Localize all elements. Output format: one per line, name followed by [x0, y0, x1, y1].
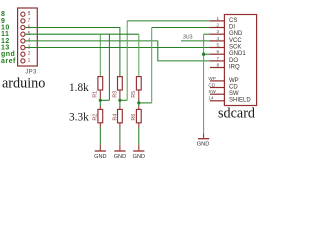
- junction dot GND1: [202, 53, 205, 56]
- svg-text:SW: SW: [208, 89, 216, 94]
- wire to sdcard CS: [127, 20, 210, 22]
- svg-text:R6: R6: [131, 114, 137, 121]
- JP3 pin circle 4: [21, 39, 25, 43]
- ground symbol lead: [138, 145, 140, 151]
- wire R1 feed vertical: [99, 34, 101, 76]
- JP3 pin circle 1: [21, 59, 25, 63]
- svg-text:2: 2: [217, 22, 220, 27]
- JP3 pin circle 2: [21, 52, 25, 56]
- wire branch 11-row down to junction A: [100, 34, 109, 100]
- svg-text:R2: R2: [93, 114, 99, 121]
- resistor R3 body: [118, 77, 123, 90]
- sdcard pin 1 stub: [210, 20, 224, 22]
- wire 3V3 to sdcard VCC: [181, 40, 210, 42]
- wire junction to R below: [138, 103, 140, 106]
- svg-text:GND: GND: [114, 154, 126, 160]
- svg-text:2: 2: [28, 51, 31, 57]
- resistor R2 lead bottom: [99, 123, 101, 127]
- resistor R3 lead bottom: [119, 90, 121, 100]
- resistor R2 body: [98, 109, 103, 122]
- svg-text:3.3k: 3.3k: [69, 111, 89, 123]
- svg-text:CD: CD: [229, 84, 238, 90]
- junction dot col R5: [137, 101, 140, 104]
- svg-text:7: 7: [217, 56, 220, 61]
- svg-text:CD: CD: [208, 82, 215, 87]
- wire junction A over to R5 top: [109, 33, 138, 35]
- svg-text:GND1: GND1: [229, 51, 246, 57]
- svg-text:8: 8: [217, 62, 220, 67]
- svg-text:aref: aref: [1, 58, 16, 65]
- svg-text:DI: DI: [229, 24, 235, 30]
- sdcard pin CD stub: [210, 87, 224, 89]
- sdcard body: [224, 15, 256, 106]
- wire junction A tap to sdcard DI: [100, 99, 109, 101]
- wire junction to R below: [99, 100, 101, 106]
- svg-text:R5: R5: [131, 91, 137, 98]
- wire R bottom to gnd: [99, 127, 101, 145]
- resistor R4 lead bottom: [119, 123, 121, 127]
- svg-text:sdcard: sdcard: [218, 106, 255, 122]
- svg-text:R4: R4: [112, 114, 118, 121]
- resistor R2 lead top: [99, 106, 101, 110]
- resistor R1 lead bottom: [99, 90, 101, 100]
- svg-text:R1: R1: [93, 91, 99, 98]
- svg-text:3: 3: [217, 29, 220, 34]
- resistor R6 body: [136, 109, 141, 122]
- wire sdcard GND pin3: [204, 33, 211, 35]
- svg-text:DO: DO: [229, 58, 238, 64]
- sdcard pin 3 stub: [210, 33, 224, 35]
- sdcard pin 5 stub: [210, 47, 224, 49]
- wire GND vertical: [203, 34, 205, 133]
- junction dot col R3: [118, 99, 121, 102]
- sdcard pin 4 stub: [210, 40, 224, 42]
- wire arduino 11 horizontal: [25, 33, 100, 35]
- sdcard pin 7 stub: [210, 60, 224, 62]
- sdcard pin 14 stub: [210, 100, 224, 102]
- sdcard pin 2 stub: [210, 27, 224, 29]
- wire to sdcard DI: [152, 27, 211, 29]
- sdcard pin WP stub: [210, 80, 224, 82]
- wire arduino 10 to R3 top: [25, 28, 120, 77]
- wire R bottom to gnd: [119, 127, 121, 145]
- svg-text:GND: GND: [197, 142, 209, 148]
- svg-text:GND: GND: [94, 154, 106, 160]
- ground symbol right lead: [203, 134, 205, 138]
- JP3 pin circle 7: [21, 19, 25, 23]
- svg-text:GND: GND: [133, 154, 145, 160]
- wire arduino 13 to sdcard SCK: [25, 47, 210, 49]
- resistor R4 body: [118, 109, 123, 122]
- sdcard pin SW stub: [210, 93, 224, 95]
- ground symbol bar: [114, 150, 125, 152]
- svg-text:SW: SW: [229, 91, 239, 97]
- svg-text:GND: GND: [229, 31, 243, 37]
- connector JP3 body: [18, 8, 38, 66]
- svg-text:WP: WP: [208, 76, 215, 81]
- JP3 pin circle 6: [21, 25, 25, 29]
- ground symbol lead: [119, 145, 121, 151]
- ground symbol bar: [95, 150, 106, 152]
- svg-text:CS: CS: [229, 18, 237, 24]
- svg-text:14: 14: [208, 96, 214, 101]
- sdcard pin 8 stub: [210, 67, 224, 69]
- resistor R6 lead top: [138, 106, 140, 110]
- ground symbol right bar: [198, 138, 209, 140]
- JP3 pin circle 8: [21, 12, 25, 16]
- svg-text:WP: WP: [229, 78, 239, 84]
- svg-text:7: 7: [28, 18, 31, 24]
- resistor R4 lead top: [119, 106, 121, 110]
- svg-text:6: 6: [217, 49, 220, 54]
- svg-text:IRQ: IRQ: [229, 64, 240, 70]
- JP3 pin circle 5: [21, 32, 25, 36]
- wire DI riser vertical: [151, 28, 153, 103]
- wire R5 feed vertical: [138, 34, 140, 76]
- svg-text:VCC: VCC: [229, 38, 242, 44]
- svg-text:4: 4: [217, 36, 220, 41]
- svg-text:1: 1: [217, 16, 220, 21]
- svg-text:3U3: 3U3: [183, 35, 193, 41]
- resistor R5 lead bottom: [138, 90, 140, 103]
- wire R bottom to gnd: [138, 127, 140, 145]
- svg-text:R3: R3: [112, 91, 118, 98]
- wire CS riser vertical: [126, 21, 128, 100]
- svg-text:SCK: SCK: [229, 44, 241, 50]
- svg-text:1.8k: 1.8k: [69, 82, 89, 94]
- ground symbol bar: [133, 150, 144, 152]
- sdcard pin 6 stub: [210, 53, 224, 55]
- wire junction to R below: [119, 100, 121, 106]
- svg-text:5: 5: [217, 42, 220, 47]
- ground symbol lead: [99, 145, 101, 151]
- resistor R1 body: [98, 77, 103, 90]
- junction dot col R1: [99, 99, 102, 102]
- resistor R6 lead bottom: [138, 123, 140, 127]
- wire junction B tap: [120, 99, 127, 101]
- svg-text:1: 1: [28, 58, 31, 64]
- svg-text:8: 8: [28, 11, 31, 17]
- wire arduino 12 to sdcard DO: [25, 41, 210, 61]
- resistor R5 body: [136, 77, 141, 90]
- svg-text:JP3: JP3: [25, 69, 37, 75]
- svg-text:SHIELD: SHIELD: [229, 98, 251, 104]
- JP3 pin circle 3: [21, 45, 25, 49]
- svg-text:arduino: arduino: [2, 76, 45, 92]
- wire junction C tap: [139, 102, 152, 104]
- wire sdcard GND1 pin6: [204, 53, 211, 55]
